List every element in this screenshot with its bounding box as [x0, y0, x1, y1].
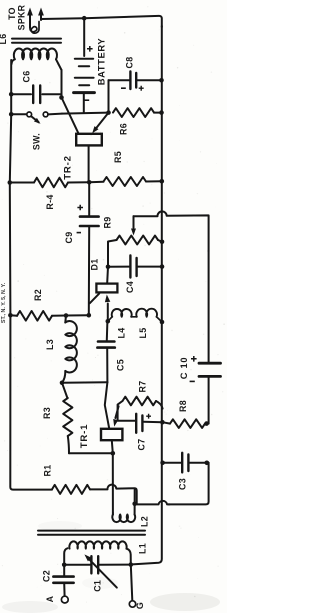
svg-text:TR-2: TR-2 — [63, 155, 74, 180]
wire left rail upper — [10, 94, 12, 114]
svg-text:C3: C3 — [177, 478, 187, 490]
resistor R7 — [123, 397, 163, 409]
capacitor C3 — [163, 453, 209, 473]
label C9 — [64, 232, 74, 244]
svg-text:ST., N. Y. 5, N. Y.: ST., N. Y. 5, N. Y. — [1, 282, 7, 323]
C7 plus — [146, 414, 151, 419]
node C4 right — [160, 264, 165, 269]
svg-text:L5: L5 — [138, 328, 148, 339]
svg-text:R2: R2 — [33, 289, 43, 301]
C10 plus — [191, 356, 197, 362]
node C9 bottom — [87, 313, 92, 318]
R9 wiper wire with hop — [134, 211, 209, 251]
wire D1 node to C4 — [108, 266, 129, 268]
label TR-1 — [79, 424, 90, 449]
terminal G — [129, 601, 145, 609]
node C3 right — [205, 461, 210, 466]
inductor L4 — [108, 309, 132, 321]
C8 minus — [121, 87, 126, 89]
transistor TR-1 — [101, 382, 122, 453]
node L5 right — [160, 320, 165, 325]
label C2 — [42, 570, 52, 582]
svg-text:C4: C4 — [125, 281, 135, 293]
wire SW to emitter node — [62, 113, 109, 114]
svg-text:TR-1: TR-1 — [79, 424, 90, 449]
node R5 right — [160, 179, 165, 184]
svg-text:R6: R6 — [118, 123, 128, 135]
svg-text:C9: C9 — [64, 232, 74, 244]
resistor R2 — [10, 311, 66, 321]
C9 plus — [77, 205, 83, 211]
resistor R5 — [89, 177, 162, 186]
label R-4 — [45, 194, 55, 209]
label R2 — [33, 289, 43, 301]
node C2 top — [62, 563, 67, 568]
R1 wire hop over TR-1 base — [90, 485, 137, 504]
label L4 — [116, 328, 126, 339]
credit text — [1, 282, 7, 323]
node R6 right — [159, 110, 164, 115]
node L4 left — [106, 319, 111, 324]
label L6 — [0, 34, 8, 45]
wire tank top — [64, 564, 90, 566]
node C1 right — [129, 562, 134, 567]
label SW — [31, 133, 41, 150]
label TR-2 — [63, 155, 74, 180]
wire TR-1 base down — [112, 453, 114, 513]
svg-text:R9: R9 — [103, 217, 113, 229]
node L3 top — [64, 313, 69, 318]
label L3 — [45, 339, 55, 350]
wire node to C9 line — [66, 314, 89, 316]
label R5 — [113, 151, 123, 163]
node battery top — [82, 16, 87, 21]
wire left rail mid — [10, 114, 11, 315]
battery minus — [84, 99, 89, 101]
label R3 — [42, 407, 52, 419]
C10 minus — [190, 380, 195, 382]
speaker lead arrows — [27, 8, 44, 28]
svg-text:C1: C1 — [93, 580, 103, 592]
svg-text:SW.: SW. — [31, 133, 41, 150]
wire outer branch bottom — [169, 463, 209, 505]
label R1 — [42, 465, 52, 477]
label BATTERY — [95, 38, 106, 86]
svg-text:L1: L1 — [137, 543, 147, 554]
terminal A — [45, 595, 68, 603]
label C4 — [125, 281, 135, 293]
wire L3 bottom to C5 — [62, 381, 107, 384]
label C8 — [124, 57, 134, 69]
resistor R9 — [108, 236, 162, 267]
wire top rail to battery and right corner — [41, 16, 162, 27]
label R8 — [178, 400, 188, 412]
wire G drop — [131, 565, 133, 601]
capacitor C4 — [130, 256, 162, 278]
node TR-2 base bottom — [87, 180, 92, 185]
wire L6 right down — [61, 70, 63, 98]
svg-text:TO: TO — [7, 7, 17, 20]
node L3 bottom — [60, 381, 65, 386]
inductor L1 — [64, 541, 131, 564]
node R9 right — [160, 240, 165, 245]
label R9 — [103, 217, 113, 229]
node R8 right — [204, 421, 209, 426]
wire L2 node to border hop — [135, 501, 170, 504]
svg-text:R8: R8 — [178, 400, 188, 412]
node TR-1 base — [111, 451, 116, 456]
label C6 — [21, 71, 31, 83]
switch SW — [11, 112, 62, 124]
capacitor C2 — [53, 565, 73, 596]
capacitor C1 variable — [84, 554, 130, 587]
capacitor C7 — [136, 414, 162, 433]
capacitor C9 — [80, 182, 99, 315]
node TR-2 collector — [59, 95, 64, 100]
svg-text:R3: R3 — [42, 407, 52, 419]
label L1 — [137, 543, 147, 554]
node C7 right — [160, 420, 165, 425]
wire R7 left down — [118, 401, 135, 421]
svg-text:L3: L3 — [45, 339, 55, 350]
svg-text:BATTERY: BATTERY — [95, 38, 106, 86]
svg-text:C2: C2 — [42, 570, 52, 582]
svg-text:L4: L4 — [116, 328, 126, 339]
speaker lead curl — [30, 22, 39, 34]
svg-text:R-4: R-4 — [45, 194, 55, 209]
wire R3 bottom rail — [69, 452, 113, 454]
label D1 — [89, 259, 99, 271]
node C6 left — [9, 92, 14, 97]
capacitor C8 — [109, 72, 162, 113]
svg-text:C6: C6 — [21, 71, 31, 83]
capacitor C6 — [11, 86, 61, 104]
svg-text:C 10: C 10 — [179, 357, 189, 379]
svg-text:L6: L6 — [0, 34, 8, 45]
label C10 — [179, 357, 189, 379]
svg-text:SPKR: SPKR — [17, 4, 27, 30]
node R6 C8 left — [106, 110, 111, 115]
diode D1 — [90, 267, 118, 322]
node SW left — [9, 112, 14, 117]
label C3 — [177, 478, 187, 490]
label TO SPKR — [7, 4, 27, 30]
svg-text:C7: C7 — [136, 439, 146, 451]
node R2 left — [8, 313, 13, 318]
wire left rail lower — [10, 315, 52, 489]
svg-text:R5: R5 — [113, 151, 123, 163]
svg-text:G: G — [135, 602, 145, 609]
svg-text:R7: R7 — [137, 381, 147, 393]
transistor TR-2 — [62, 98, 109, 183]
svg-text:C5: C5 — [115, 359, 125, 371]
transformer L6 core — [12, 39, 61, 43]
svg-text:A: A — [45, 595, 55, 602]
svg-text:C8: C8 — [124, 57, 134, 69]
node R-4 left — [8, 180, 13, 185]
label L5 — [138, 328, 148, 339]
svg-text:R1: R1 — [42, 465, 52, 477]
resistor R3 — [62, 383, 72, 454]
transformer L6 primary — [12, 49, 62, 70]
label C7 — [136, 439, 146, 451]
node C3 left — [160, 461, 165, 466]
battery B1 — [74, 18, 95, 112]
R9 wiper arrow — [131, 216, 136, 235]
label C5 — [115, 359, 125, 371]
node D1 top — [106, 265, 111, 270]
label L2 — [139, 516, 149, 527]
capacitor C10 — [199, 251, 221, 424]
resistor R-4 — [10, 178, 89, 188]
resistor R8 — [162, 419, 205, 428]
inductor L2 — [112, 489, 135, 522]
capacitor C5 — [97, 321, 114, 382]
C8 plus — [139, 86, 144, 91]
label R6 — [118, 123, 128, 135]
inductor L3 — [62, 316, 77, 383]
wire L6 left to rail — [10, 60, 12, 94]
C9 minus — [77, 232, 81, 234]
transformer L1 L2 core — [38, 531, 145, 535]
svg-text:L2: L2 — [139, 516, 149, 527]
resistor R6 — [113, 108, 162, 117]
wire right rail — [132, 26, 162, 564]
node C8 right — [159, 78, 164, 83]
inductor L5 — [131, 309, 162, 322]
node L2 right top — [132, 502, 137, 507]
battery plus — [87, 46, 93, 52]
label R7 — [137, 381, 147, 393]
svg-text:D1: D1 — [89, 259, 99, 271]
label C1 — [93, 580, 103, 592]
resistor R1 — [52, 485, 90, 494]
